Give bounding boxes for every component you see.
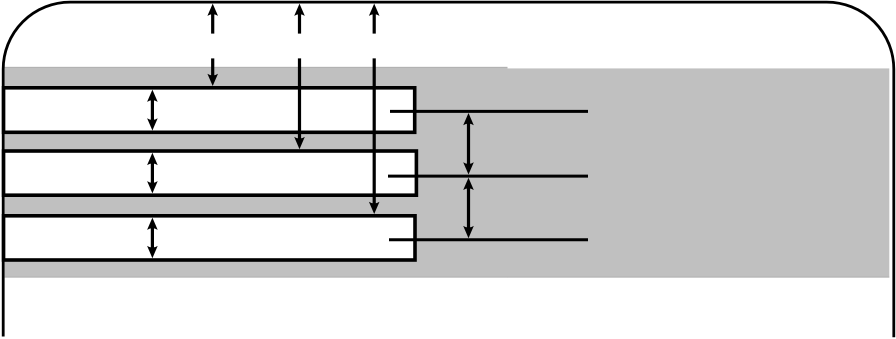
dimension line 1 upper segment with up arrow: [207, 4, 218, 34]
track 3 box: [4, 216, 415, 260]
spacing double arrow between leader 1 and leader 2: [463, 113, 474, 175]
spacing double arrow between leader 2 and leader 3: [463, 178, 474, 239]
track 1 leader line: [390, 110, 588, 113]
track 2 box: [4, 151, 417, 195]
track 1 height double arrow: [147, 90, 158, 131]
track 3 height double arrow: [147, 218, 158, 259]
magnetic stripe band bottom edge: [5, 277, 890, 278]
magnetic stripe band right part: [507, 68, 889, 277]
track 3 leader line: [389, 238, 588, 241]
magnetic stripe band left top edge: [5, 67, 508, 68]
dimension line 2 upper segment with up arrow: [294, 4, 305, 34]
dimension line 1 lower segment with down arrow to track 1: [207, 58, 218, 86]
dimension line 2 lower segment with down arrow to track 2: [294, 58, 305, 149]
track 1 box: [4, 88, 415, 133]
magnetic stripe band left part: [5, 67, 508, 278]
dimension line 3 upper segment with up arrow: [369, 4, 380, 34]
track 2 height double arrow: [147, 153, 158, 194]
track 2 leader line: [388, 175, 588, 178]
dimension line 3 lower segment with down arrow to track 3: [369, 58, 380, 214]
